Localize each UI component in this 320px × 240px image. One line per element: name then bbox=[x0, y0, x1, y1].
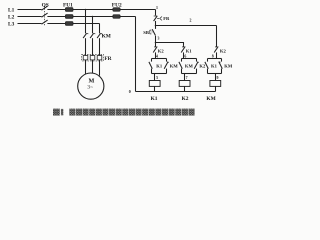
motor M1 circle bbox=[78, 73, 104, 99]
fuse FU2-2 bbox=[113, 15, 120, 19]
wire branch2 right sub upper bbox=[196, 59, 198, 62]
svg-text:L1: L1 bbox=[8, 7, 15, 13]
svg-text:K1: K1 bbox=[156, 64, 163, 69]
contact branch1 left bbox=[149, 62, 152, 69]
wire node1 drop bbox=[155, 10, 157, 16]
pushbutton SB blade bbox=[152, 29, 155, 35]
svg-text:KM: KM bbox=[185, 64, 194, 69]
svg-text:3: 3 bbox=[158, 36, 160, 40]
wire node2 rail bbox=[156, 25, 217, 27]
wire branch3 mid bbox=[216, 52, 218, 58]
svg-text:K2: K2 bbox=[220, 48, 227, 53]
wire FR-motor W bbox=[99, 60, 101, 76]
wire L2 return drop bbox=[135, 17, 137, 92]
figure caption text blocks bbox=[69, 109, 194, 116]
thermal relay FR heater 1 bbox=[83, 56, 88, 60]
wire branch2 left sub lower bbox=[181, 69, 183, 74]
wire QS-FU1 pole2 bbox=[47, 16, 65, 18]
thermal relay FR frame dashed bbox=[82, 54, 104, 61]
wire branch3 right sub upper bbox=[221, 59, 223, 62]
junction node2 bbox=[155, 25, 157, 27]
wire branch1 mid bbox=[155, 52, 157, 58]
junction tap V bbox=[92, 16, 94, 18]
coil K2 bbox=[179, 81, 190, 87]
wire branch3 stem bbox=[215, 74, 217, 81]
wire KM-FR phase U bbox=[85, 38, 87, 55]
svg-text:2: 2 bbox=[190, 19, 192, 23]
coil K1 bbox=[149, 81, 160, 87]
wire FR to node2 bbox=[155, 21, 157, 26]
wire branch3 right sub lower bbox=[221, 69, 223, 74]
wire return rail 0 bbox=[136, 91, 216, 93]
svg-text:7: 7 bbox=[186, 76, 188, 80]
wire QS-FU1 pole3 bbox=[47, 23, 65, 25]
svg-text:KM: KM bbox=[170, 64, 179, 69]
wire branch1 right sub lower bbox=[166, 69, 168, 74]
wire branch3 left sub lower bbox=[207, 69, 209, 74]
wire coil K2 to rail bbox=[184, 87, 186, 92]
contactor KM main contact 2 bbox=[90, 33, 95, 38]
switch QS pole 1 blade bbox=[42, 6, 48, 10]
wire branch2 upper bbox=[183, 45, 185, 46]
wire node2-SB bbox=[155, 26, 157, 29]
wire coil KM to rail bbox=[215, 87, 217, 92]
contactor KM main contact 1 bbox=[83, 33, 88, 38]
fuse FU1-3 bbox=[65, 22, 73, 26]
svg-text:KM: KM bbox=[102, 33, 111, 39]
switch QS pole 3 blade bbox=[42, 20, 48, 24]
contact K2 branch1 top bbox=[153, 47, 157, 53]
thermal relay FR heater 3 bbox=[97, 56, 102, 60]
contact branch3 right bbox=[219, 62, 223, 69]
wire QS-FU1 pole1 bbox=[47, 9, 65, 11]
wire L3 bus to tap bbox=[73, 23, 100, 25]
wire branch2 mid bbox=[183, 52, 185, 58]
svg-text:FR: FR bbox=[163, 16, 170, 21]
wire FR-motor U bbox=[85, 60, 87, 75]
pushbutton SB actuator bbox=[150, 30, 153, 34]
svg-text:0: 0 bbox=[129, 90, 131, 94]
thermal relay FR heater 2 bbox=[90, 56, 95, 60]
svg-text:K1: K1 bbox=[186, 48, 193, 53]
wire phase W drop bbox=[99, 24, 101, 34]
wire branch2 rejoin bar bbox=[182, 73, 197, 75]
wire node3 rail to branch2 bbox=[156, 43, 184, 46]
wire branch2 left sub upper bbox=[181, 59, 183, 62]
fuse FU1-1 bbox=[65, 8, 73, 12]
junction node3 bbox=[155, 42, 157, 44]
wire phase U drop bbox=[85, 10, 87, 34]
contact K1 branch2 top bbox=[181, 47, 185, 53]
wire branch2 stem bbox=[184, 74, 186, 81]
wire branch3 rejoin bar bbox=[208, 73, 222, 75]
svg-text:KM: KM bbox=[224, 64, 233, 69]
fuse FU1-2 bbox=[65, 15, 73, 19]
svg-text:K2: K2 bbox=[182, 96, 189, 102]
wire L2 in bbox=[18, 16, 42, 18]
wire L2 bus to return drop bbox=[73, 16, 136, 18]
contact branch3 left bbox=[205, 62, 208, 69]
thermal relay FR hook symbol bbox=[157, 17, 162, 21]
wire SB-node3 bbox=[155, 36, 157, 43]
wire L1 in bbox=[18, 9, 42, 11]
svg-text:K1: K1 bbox=[211, 64, 218, 69]
coil KM bbox=[210, 81, 221, 87]
svg-text:K2: K2 bbox=[158, 48, 165, 53]
wire branch1 left sub lower bbox=[151, 69, 153, 74]
wire branch3 split bar bbox=[208, 58, 222, 60]
wire branch3 left sub upper bbox=[207, 59, 209, 62]
contact branch2 left bbox=[179, 62, 182, 69]
svg-text:K1: K1 bbox=[151, 96, 158, 102]
wire L1 bus to node1 bbox=[73, 9, 156, 11]
wire branch1 right sub upper bbox=[166, 59, 168, 62]
svg-text:K2: K2 bbox=[199, 64, 206, 69]
contact branch2 right bbox=[194, 62, 199, 69]
wire branch1 stem bbox=[154, 74, 156, 81]
wire FR-motor V bbox=[92, 60, 94, 73]
switch QS pole 2 blade bbox=[42, 13, 48, 17]
contact K2 branch3 top bbox=[214, 47, 218, 53]
contact FR NC control bbox=[154, 16, 158, 21]
wire branch1 split bar bbox=[152, 58, 167, 60]
svg-text:L2: L2 bbox=[8, 14, 15, 20]
wire phase V drop bbox=[92, 17, 94, 34]
svg-text:FR: FR bbox=[104, 56, 111, 62]
contact branch1 right bbox=[164, 62, 169, 69]
junction tap U bbox=[85, 9, 87, 11]
wire branch3 top drop bbox=[216, 26, 218, 47]
figure caption number block bbox=[53, 109, 63, 116]
wire branch1 upper bbox=[155, 43, 157, 47]
svg-text:SB: SB bbox=[143, 30, 149, 35]
svg-text:5: 5 bbox=[156, 76, 158, 80]
svg-text:1: 1 bbox=[156, 6, 158, 10]
svg-text:3~: 3~ bbox=[87, 84, 93, 90]
contactor KM main contact 3 bbox=[97, 33, 102, 38]
wire branch2 split bar bbox=[182, 58, 197, 60]
wire L3 in bbox=[18, 23, 42, 25]
svg-text:L3: L3 bbox=[8, 21, 15, 27]
wire branch1 rejoin bar bbox=[152, 73, 167, 75]
wire KM-FR phase W bbox=[99, 38, 101, 55]
wire branch3 upper bbox=[216, 46, 218, 48]
switch QS linkage dashed bbox=[44, 6, 46, 25]
wire KM-FR phase V bbox=[92, 38, 94, 55]
svg-text:9: 9 bbox=[217, 76, 219, 80]
svg-text:KM: KM bbox=[206, 96, 215, 102]
wire branch2 right sub lower bbox=[196, 69, 198, 74]
wire coil K1 to rail bbox=[154, 87, 156, 92]
fuse FU2-1 bbox=[113, 8, 120, 12]
wire branch1 left sub upper bbox=[151, 59, 153, 62]
